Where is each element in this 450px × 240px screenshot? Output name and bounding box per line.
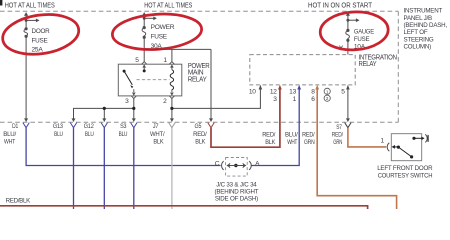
svg-text:1: 1 bbox=[293, 96, 297, 103]
svg-text:WHT/: WHT/ bbox=[150, 131, 165, 138]
svg-text:DOOR: DOOR bbox=[32, 28, 50, 35]
note circle 2 bbox=[324, 95, 330, 101]
svg-text:C: C bbox=[215, 160, 220, 167]
label BLU/WHT (pin 13 wire) bbox=[285, 132, 298, 147]
label DOOR FUSE 25A bbox=[32, 28, 50, 54]
label RED/BLK (pin 12 wire) bbox=[262, 132, 276, 147]
svg-text:COURTESY SWITCH: COURTESY SWITCH bbox=[378, 173, 433, 180]
svg-text:5: 5 bbox=[341, 88, 345, 95]
note circle 1 bbox=[324, 88, 330, 94]
pin 5 connector chevron bbox=[142, 62, 147, 70]
svg-text:SIDE OF DASH): SIDE OF DASH) bbox=[215, 196, 258, 203]
label LEFT FRONT DOOR COURTESY SWITCH bbox=[377, 165, 433, 180]
connector C half bbox=[222, 161, 224, 170]
label G12 BLU bbox=[84, 123, 94, 138]
node junction G12 bbox=[103, 107, 106, 110]
svg-text:HOT AT ALL TIMES: HOT AT ALL TIMES bbox=[144, 3, 192, 10]
svg-text:J7: J7 bbox=[153, 123, 159, 130]
red circle around door fuse bbox=[0, 10, 81, 59]
courtesy switch blade end dot bbox=[410, 155, 413, 158]
connector D1 bbox=[23, 123, 29, 128]
svg-text:HOT AT ALL TIMES: HOT AT ALL TIMES bbox=[5, 3, 55, 10]
svg-text:INSTRUMENT: INSTRUMENT bbox=[404, 8, 443, 15]
svg-text:RELAY: RELAY bbox=[188, 76, 207, 83]
wire bus to G13 G12 bbox=[74, 108, 134, 121]
svg-text:RELAY: RELAY bbox=[359, 61, 377, 68]
svg-text:1: 1 bbox=[380, 137, 384, 144]
svg-text:2: 2 bbox=[163, 98, 167, 105]
svg-text:(BEHIND DASH,: (BEHIND DASH, bbox=[404, 22, 448, 29]
svg-text:G13: G13 bbox=[53, 123, 63, 130]
fuse POWER 30A bbox=[142, 12, 157, 62]
node J/C splice dot bbox=[234, 164, 237, 167]
svg-text:BLU: BLU bbox=[85, 131, 94, 138]
wire WHT/BLK J7 down bbox=[171, 128, 173, 209]
svg-text:S7: S7 bbox=[336, 124, 342, 131]
svg-text:RED/: RED/ bbox=[302, 132, 315, 139]
connector A half bbox=[249, 161, 251, 170]
pin 2 connector chevron bbox=[169, 89, 174, 98]
svg-text:BLU/: BLU/ bbox=[285, 132, 298, 139]
node junction J7 bbox=[170, 107, 173, 110]
label D1 BLU/WHT bbox=[3, 123, 18, 145]
svg-text:RED/: RED/ bbox=[193, 131, 207, 138]
svg-text:COLUMN): COLUMN) bbox=[404, 44, 432, 51]
svg-text:J/C 33 & J/C 34: J/C 33 & J/C 34 bbox=[216, 181, 257, 188]
label J/C 33 & J/C 34 bbox=[214, 181, 258, 202]
svg-text:BLK: BLK bbox=[265, 139, 276, 146]
red circle around gauge fuse bbox=[319, 10, 389, 51]
svg-text:LEFT FRONT DOOR: LEFT FRONT DOOR bbox=[377, 165, 433, 172]
label INTEGRATION RELAY bbox=[359, 55, 397, 68]
connector half at courtesy switch bbox=[387, 143, 389, 151]
relay mechanical link (dashed) bbox=[137, 79, 170, 81]
relay coil bbox=[170, 70, 173, 90]
svg-text:STEERING: STEERING bbox=[404, 36, 434, 43]
svg-text:RED/: RED/ bbox=[262, 132, 275, 139]
wire RED/BLK G5 to integration pin 12 bbox=[211, 89, 280, 148]
svg-text:5: 5 bbox=[135, 57, 139, 64]
label G5 RED/BLK bbox=[193, 123, 207, 145]
svg-text:S3: S3 bbox=[120, 123, 127, 130]
svg-text:1: 1 bbox=[163, 57, 167, 64]
fuse GAUGE 10A bbox=[339, 12, 359, 54]
svg-text:D1: D1 bbox=[12, 123, 18, 130]
wire inside J/C with arrows bbox=[228, 165, 244, 167]
instrument panel J/B dashed boundary bottom bbox=[0, 121, 398, 123]
connector S3 bbox=[131, 123, 137, 128]
label S3 BLU bbox=[119, 123, 128, 138]
label GAUGE FUSE 10A bbox=[354, 29, 375, 51]
instrument panel J/B dashed boundary top bbox=[0, 10, 398, 12]
svg-text:G5: G5 bbox=[195, 123, 202, 130]
svg-text:WHT: WHT bbox=[287, 139, 297, 146]
svg-text:BLK: BLK bbox=[195, 139, 206, 146]
red circle around power fuse bbox=[111, 11, 203, 52]
svg-text:FUSE: FUSE bbox=[151, 33, 168, 40]
connector G5 bbox=[208, 123, 214, 128]
connector G12 bbox=[101, 123, 107, 128]
relay K1 POWER MAIN RELAY box bbox=[118, 64, 182, 96]
junction connector J/C 33 & J/C 34 dashed box bbox=[226, 158, 248, 177]
label RED/GRN (pin 8 wire) bbox=[302, 132, 315, 147]
svg-text:RED/BLK: RED/BLK bbox=[6, 197, 32, 204]
wire BLU G13 down bbox=[73, 128, 75, 209]
wire pin2 down to J7 and across to integration relay pin10 bbox=[171, 99, 173, 121]
instrument panel J/B dashed boundary right bbox=[397, 11, 399, 122]
svg-text:8: 8 bbox=[311, 88, 315, 95]
svg-text:FUSE: FUSE bbox=[354, 36, 370, 43]
label S7 RED/GRN bbox=[332, 124, 343, 146]
svg-text:10: 10 bbox=[249, 88, 256, 95]
connector S7 bbox=[345, 123, 351, 128]
svg-text:BLU: BLU bbox=[54, 131, 63, 138]
switch S1 LEFT FRONT DOOR COURTESY SWITCH box bbox=[391, 134, 421, 161]
relay K2 INTEGRATION RELAY dashed box bbox=[250, 55, 355, 85]
svg-text:2: 2 bbox=[326, 96, 329, 101]
wire BLU S3 down bbox=[133, 128, 135, 209]
wire RED/BLK bottom bus bbox=[0, 206, 368, 209]
svg-text:BLK: BLK bbox=[153, 139, 164, 146]
label G13 BLU bbox=[53, 123, 63, 138]
wire BLU/WHT D1 to J/C to integration pin 13 bbox=[26, 128, 221, 166]
svg-text:3: 3 bbox=[125, 98, 129, 105]
courtesy switch contact dot left bbox=[397, 146, 400, 149]
svg-text:BLU: BLU bbox=[119, 131, 128, 138]
svg-text:G12: G12 bbox=[84, 123, 94, 130]
arrows at J/B bottom connectors bbox=[24, 118, 350, 122]
svg-text:HOT IN ON OR START: HOT IN ON OR START bbox=[308, 3, 373, 10]
svg-text:GAUGE: GAUGE bbox=[354, 29, 375, 36]
node junction S3 bbox=[132, 107, 135, 110]
courtesy switch blade bbox=[398, 147, 411, 156]
svg-text:WHT: WHT bbox=[4, 139, 15, 146]
relay switch contact dots bbox=[143, 69, 146, 72]
fuse DOOR 25A bbox=[24, 12, 40, 121]
arrow into integration relay pin 10 bbox=[259, 85, 263, 90]
wire pin3 to bus bbox=[133, 99, 135, 121]
wire RED/GRN integration pin 8 down and right bbox=[317, 89, 396, 210]
pin 1 connector chevron bbox=[169, 62, 174, 70]
connector J7 bbox=[169, 123, 175, 128]
svg-text:LEFT OF: LEFT OF bbox=[404, 29, 428, 36]
wire RED/GRN S7 to courtesy switch bbox=[348, 128, 386, 147]
svg-text:GRN: GRN bbox=[333, 139, 342, 146]
wire integration pin 5 to S7 bbox=[347, 88, 349, 121]
svg-text:12: 12 bbox=[270, 88, 277, 95]
svg-text:POWER: POWER bbox=[151, 24, 175, 31]
svg-text:PANEL J/B: PANEL J/B bbox=[404, 15, 433, 22]
label J7 WHT/BLK bbox=[150, 123, 165, 145]
wire power fuse feed branch to pin1 and G5 bbox=[144, 49, 211, 121]
pin 3 connector chevron bbox=[131, 89, 136, 98]
courtesy switch ground lead bbox=[414, 137, 422, 139]
corner mark bbox=[0, 0, 2, 6]
svg-text:13: 13 bbox=[289, 88, 296, 95]
label INSTRUMENT PANEL J/B bbox=[404, 8, 448, 51]
svg-text:RED/: RED/ bbox=[332, 132, 343, 139]
courtesy switch pin arrow bbox=[392, 145, 395, 149]
svg-text:GRN: GRN bbox=[304, 139, 315, 146]
courtesy switch fixed contact dot bbox=[412, 137, 415, 140]
label POWER FUSE 30A bbox=[151, 24, 175, 50]
svg-text:BLU/: BLU/ bbox=[3, 131, 16, 138]
connector G13 bbox=[70, 123, 76, 128]
svg-text:FUSE: FUSE bbox=[32, 37, 49, 44]
svg-text:3: 3 bbox=[273, 96, 277, 103]
wire BLU G12 down bbox=[103, 128, 105, 209]
svg-text:1: 1 bbox=[326, 89, 329, 94]
relay switch blade bbox=[124, 71, 132, 85]
svg-text:(BEHIND RIGHT: (BEHIND RIGHT bbox=[214, 188, 258, 195]
svg-text:6: 6 bbox=[311, 96, 315, 103]
label POWER MAIN RELAY bbox=[188, 63, 210, 83]
